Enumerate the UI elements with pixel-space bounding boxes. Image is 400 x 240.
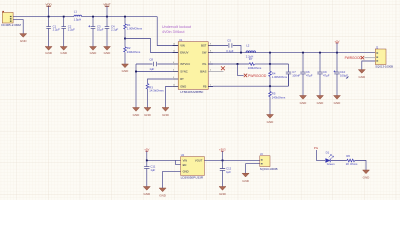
svg-text:GND: GND (133, 113, 141, 117)
svg-text:10: 10 (173, 44, 175, 46)
annotation undervoltage note (162, 25, 191, 34)
junction (106, 16, 108, 18)
svg-text:GND: GND (90, 51, 98, 55)
svg-text:2.2µF: 2.2µF (53, 28, 60, 32)
wire L1 to corner (82, 16, 158, 18)
wire P1 pin1 to bus (13, 16, 49, 18)
J2 pin2 stub (364, 57, 375, 59)
capacitor C5 (boost) (213, 38, 241, 53)
wire U1 GND pin to ground (166, 87, 173, 108)
capacitor C9 (317, 53, 329, 96)
junction (222, 160, 224, 162)
svg-text:GND: GND (219, 192, 227, 196)
svg-text:INTVCC: INTVCC (180, 62, 190, 66)
wire J2 pin3 to ground (362, 61, 376, 70)
svg-text:11: 11 (173, 85, 175, 87)
wire PG line (208, 63, 249, 65)
svg-text:1.00MOhms: 1.00MOhms (272, 75, 288, 79)
svg-text:LT8640SIV#PBF: LT8640SIV#PBF (180, 90, 203, 94)
svg-text:GND: GND (144, 113, 152, 117)
svg-text:R6: R6 (346, 154, 350, 158)
wire bus corner to VIN (157, 17, 178, 46)
ground under J2 (358, 70, 366, 80)
svg-text:PG: PG (203, 62, 207, 66)
junction (92, 16, 94, 18)
power port VBAT (103, 3, 111, 17)
U1 pin VIN (173, 44, 185, 48)
svg-text:U2: U2 (181, 153, 185, 157)
svg-text:1µF: 1µF (149, 67, 154, 71)
svg-text:R7: R7 (249, 57, 253, 61)
svg-text:8: 8 (210, 51, 211, 53)
svg-text:243kOhms: 243kOhms (272, 96, 286, 100)
junction PG tap (237, 63, 239, 65)
ground under C10 (334, 96, 342, 106)
svg-text:GND: GND (60, 51, 68, 55)
U1 pin EN/UV (173, 51, 189, 55)
ground under C6 (300, 96, 308, 106)
stray probe mark (346, 76, 348, 78)
svg-text:47µF: 47µF (323, 74, 330, 78)
wire +5V to U2 VIN (147, 160, 181, 164)
U1 pin INTVCC (173, 62, 191, 66)
op-amp U1 (buck regulator LT8640S) (178, 38, 208, 94)
U1 pin BST (201, 44, 213, 48)
no-ERC cross at J2 pin2 (361, 56, 364, 59)
svg-text:PWRGOOD: PWRGOOD (345, 56, 363, 60)
svg-text:100kOhms: 100kOhms (248, 66, 262, 70)
wire RT to R3 (148, 79, 173, 84)
ground under C9 (317, 96, 325, 106)
net label PG (LED) (314, 146, 319, 160)
connector P1 (DC jack) (1, 11, 21, 27)
svg-text:GND: GND (358, 75, 366, 79)
svg-text:VIN: VIN (183, 159, 188, 163)
ground under C12 (219, 187, 227, 197)
svg-text:100µF: 100µF (340, 74, 348, 78)
junction (146, 160, 148, 162)
svg-text:EN/UV: EN/UV (180, 51, 188, 55)
ground under C4 (104, 47, 112, 55)
capacitor C2 (61, 17, 75, 47)
capacitor C11 (144, 160, 156, 186)
svg-text:10µF: 10µF (97, 28, 104, 32)
ground under C11 (143, 187, 151, 197)
U1 pin SYNC (173, 70, 188, 74)
connector J2 (output) (375, 45, 393, 68)
junction (319, 52, 321, 54)
svg-text:C8: C8 (149, 57, 153, 61)
svg-text:GND: GND (122, 69, 130, 73)
ground under C3 (90, 47, 98, 55)
ground under R5 (267, 115, 275, 125)
svg-text:PWRGOOD: PWRGOOD (248, 74, 267, 78)
connector J3 (260, 152, 278, 171)
capacitor C4 (105, 17, 119, 47)
svg-text:9: 9 (210, 44, 211, 46)
svg-text:GND: GND (104, 51, 112, 55)
svg-text:VIN: VIN (180, 44, 185, 48)
svg-text:GND: GND (162, 113, 170, 117)
ground under C2 (60, 47, 68, 55)
junction (269, 52, 271, 54)
svg-text:3: 3 (173, 77, 174, 79)
wire divider tap to EN pin (125, 39, 178, 53)
junction node EN divider (124, 38, 126, 40)
svg-text:2.2µF: 2.2µF (111, 28, 118, 32)
svg-text:243kOhms: 243kOhms (127, 50, 141, 54)
capacitor C8 (INTVCC bypass) (136, 57, 173, 71)
svg-text:14.3kOhms: 14.3kOhms (149, 89, 164, 93)
resistor R1 (124, 17, 143, 39)
ground under C1 (45, 47, 53, 55)
ground under U2 (159, 188, 167, 198)
svg-text:6: 6 (173, 70, 174, 72)
svg-text:2.2µF: 2.2µF (68, 28, 75, 32)
wire SYNC to gnd drop (136, 71, 173, 73)
svg-text:GND: GND (183, 170, 189, 174)
svg-text:BIAS: BIAS (200, 70, 206, 74)
U1 pin SW (202, 51, 213, 55)
svg-text:EN: EN (183, 163, 187, 167)
junction (269, 63, 271, 65)
svg-text:DC005-2.0MM: DC005-2.0MM (1, 23, 21, 27)
resistor R5 (fb bottom) (269, 86, 286, 114)
inductor L1 (74, 10, 82, 22)
svg-text:GND: GND (300, 101, 308, 105)
wire J3 pin2 to ground (246, 164, 260, 174)
svg-text:FB: FB (203, 85, 207, 89)
no-ERC cross on PWRGOOD (244, 74, 247, 77)
wire VOUT drop to PG node (269, 53, 271, 64)
svg-text:GND: GND (267, 120, 275, 124)
wire FB rail (208, 74, 288, 86)
ground under R2 (122, 64, 130, 73)
svg-text:GND: GND (159, 194, 167, 198)
power port VDD (46, 3, 52, 17)
svg-text:VOUT: VOUT (195, 159, 203, 163)
junction (135, 71, 137, 73)
power port +5V (334, 39, 339, 52)
svg-text:1.5µH: 1.5µH (74, 17, 82, 21)
svg-text:GND: GND (180, 85, 186, 89)
svg-text:PG: PG (314, 146, 319, 150)
svg-text:GND: GND (45, 51, 53, 55)
LED D1 (326, 151, 335, 167)
junction (269, 85, 271, 87)
resistor R2 (124, 39, 141, 65)
svg-text:4: 4 (173, 62, 174, 64)
svg-text:100nF: 100nF (292, 74, 300, 78)
svg-text:4V0in 3V6out: 4V0in 3V6out (162, 30, 185, 34)
capacitor C6 (300, 53, 312, 96)
capacitor C7 (feedforward) (286, 64, 301, 86)
capacitor C12 (220, 160, 232, 186)
wire C8 left down to ground (135, 64, 137, 108)
ground under U1 (162, 108, 170, 118)
U1 pin GND (173, 85, 187, 89)
junction (124, 16, 126, 18)
junction (336, 52, 338, 54)
svg-text:Undervolt lockout: Undervolt lockout (162, 25, 191, 29)
U1 pin FB (203, 85, 213, 89)
svg-text:1.00MOhms: 1.00MOhms (127, 26, 143, 30)
svg-text:L1: L1 (74, 10, 78, 14)
wire bus VDD to L1 (49, 16, 74, 18)
svg-text:Green: Green (327, 162, 335, 166)
wire P1 pin2 down (13, 20, 23, 34)
svg-text:GND: GND (242, 179, 250, 183)
svg-text:L2: L2 (246, 44, 250, 48)
wire SW rail (213, 52, 375, 54)
resistor R4 (fb top) (269, 64, 288, 86)
ground under R3 (144, 108, 152, 118)
svg-text:SW: SW (202, 51, 207, 55)
resistor R6 (346, 154, 358, 166)
wire PG tap to label (238, 64, 244, 75)
U1 pin BIAS (long unconnected stub) (200, 70, 223, 74)
svg-text:SQ013-1000B: SQ013-1000B (260, 167, 278, 171)
capacitor C3 (88, 17, 103, 47)
svg-text:U1: U1 (179, 38, 183, 42)
wire R6 to ground (355, 161, 366, 171)
svg-text:GND: GND (363, 176, 371, 180)
resistor R3 (146, 84, 164, 108)
ground under P1 (20, 34, 28, 44)
regulator U2 (LDO) (181, 153, 205, 180)
svg-text:SYNC: SYNC (180, 70, 188, 74)
no-ERC cross on BIAS (221, 66, 225, 70)
wire LED to R6 (331, 160, 347, 162)
junction (302, 52, 304, 54)
junction (48, 16, 50, 18)
svg-text:GND: GND (317, 101, 325, 105)
power port +3V3 (219, 148, 226, 161)
inductor L2 (246, 44, 256, 59)
svg-text:GND: GND (334, 101, 342, 105)
svg-text:SQ013-1000B: SQ013-1000B (375, 65, 393, 69)
svg-text:D1: D1 (326, 151, 330, 155)
svg-text:1µF: 1µF (226, 170, 231, 174)
U2 GND wire to ground (163, 171, 181, 188)
wire PG to LED (316, 160, 325, 162)
svg-text:GND: GND (143, 192, 151, 196)
ground under C8/SYNC (133, 108, 141, 118)
resistor R7 (PG pullup) (248, 57, 270, 70)
power port +5V (LDO input) (144, 148, 149, 161)
junction (240, 52, 242, 54)
svg-text:BST: BST (201, 44, 207, 48)
U1 pin RT (173, 77, 184, 81)
svg-text:5: 5 (210, 70, 211, 72)
capacitor C10 (334, 53, 349, 96)
capacitor C1 (46, 17, 60, 47)
U1 pin PG (203, 62, 213, 66)
junction (63, 16, 65, 18)
svg-text:GND: GND (20, 39, 28, 43)
svg-text:LD39050PU33R: LD39050PU33R (181, 176, 204, 180)
wire PG node to C7 (270, 63, 289, 65)
svg-text:47µF: 47µF (306, 74, 313, 78)
wire U2 VOUT to J3 (204, 159, 259, 161)
svg-text:12: 12 (173, 51, 175, 53)
ground under J3 (242, 173, 250, 183)
svg-text:2K Ohms: 2K Ohms (346, 162, 358, 166)
svg-text:1µF: 1µF (150, 168, 155, 172)
svg-text:C5: C5 (227, 38, 231, 42)
ground under R6 (363, 170, 371, 180)
svg-text:RT: RT (180, 77, 184, 81)
